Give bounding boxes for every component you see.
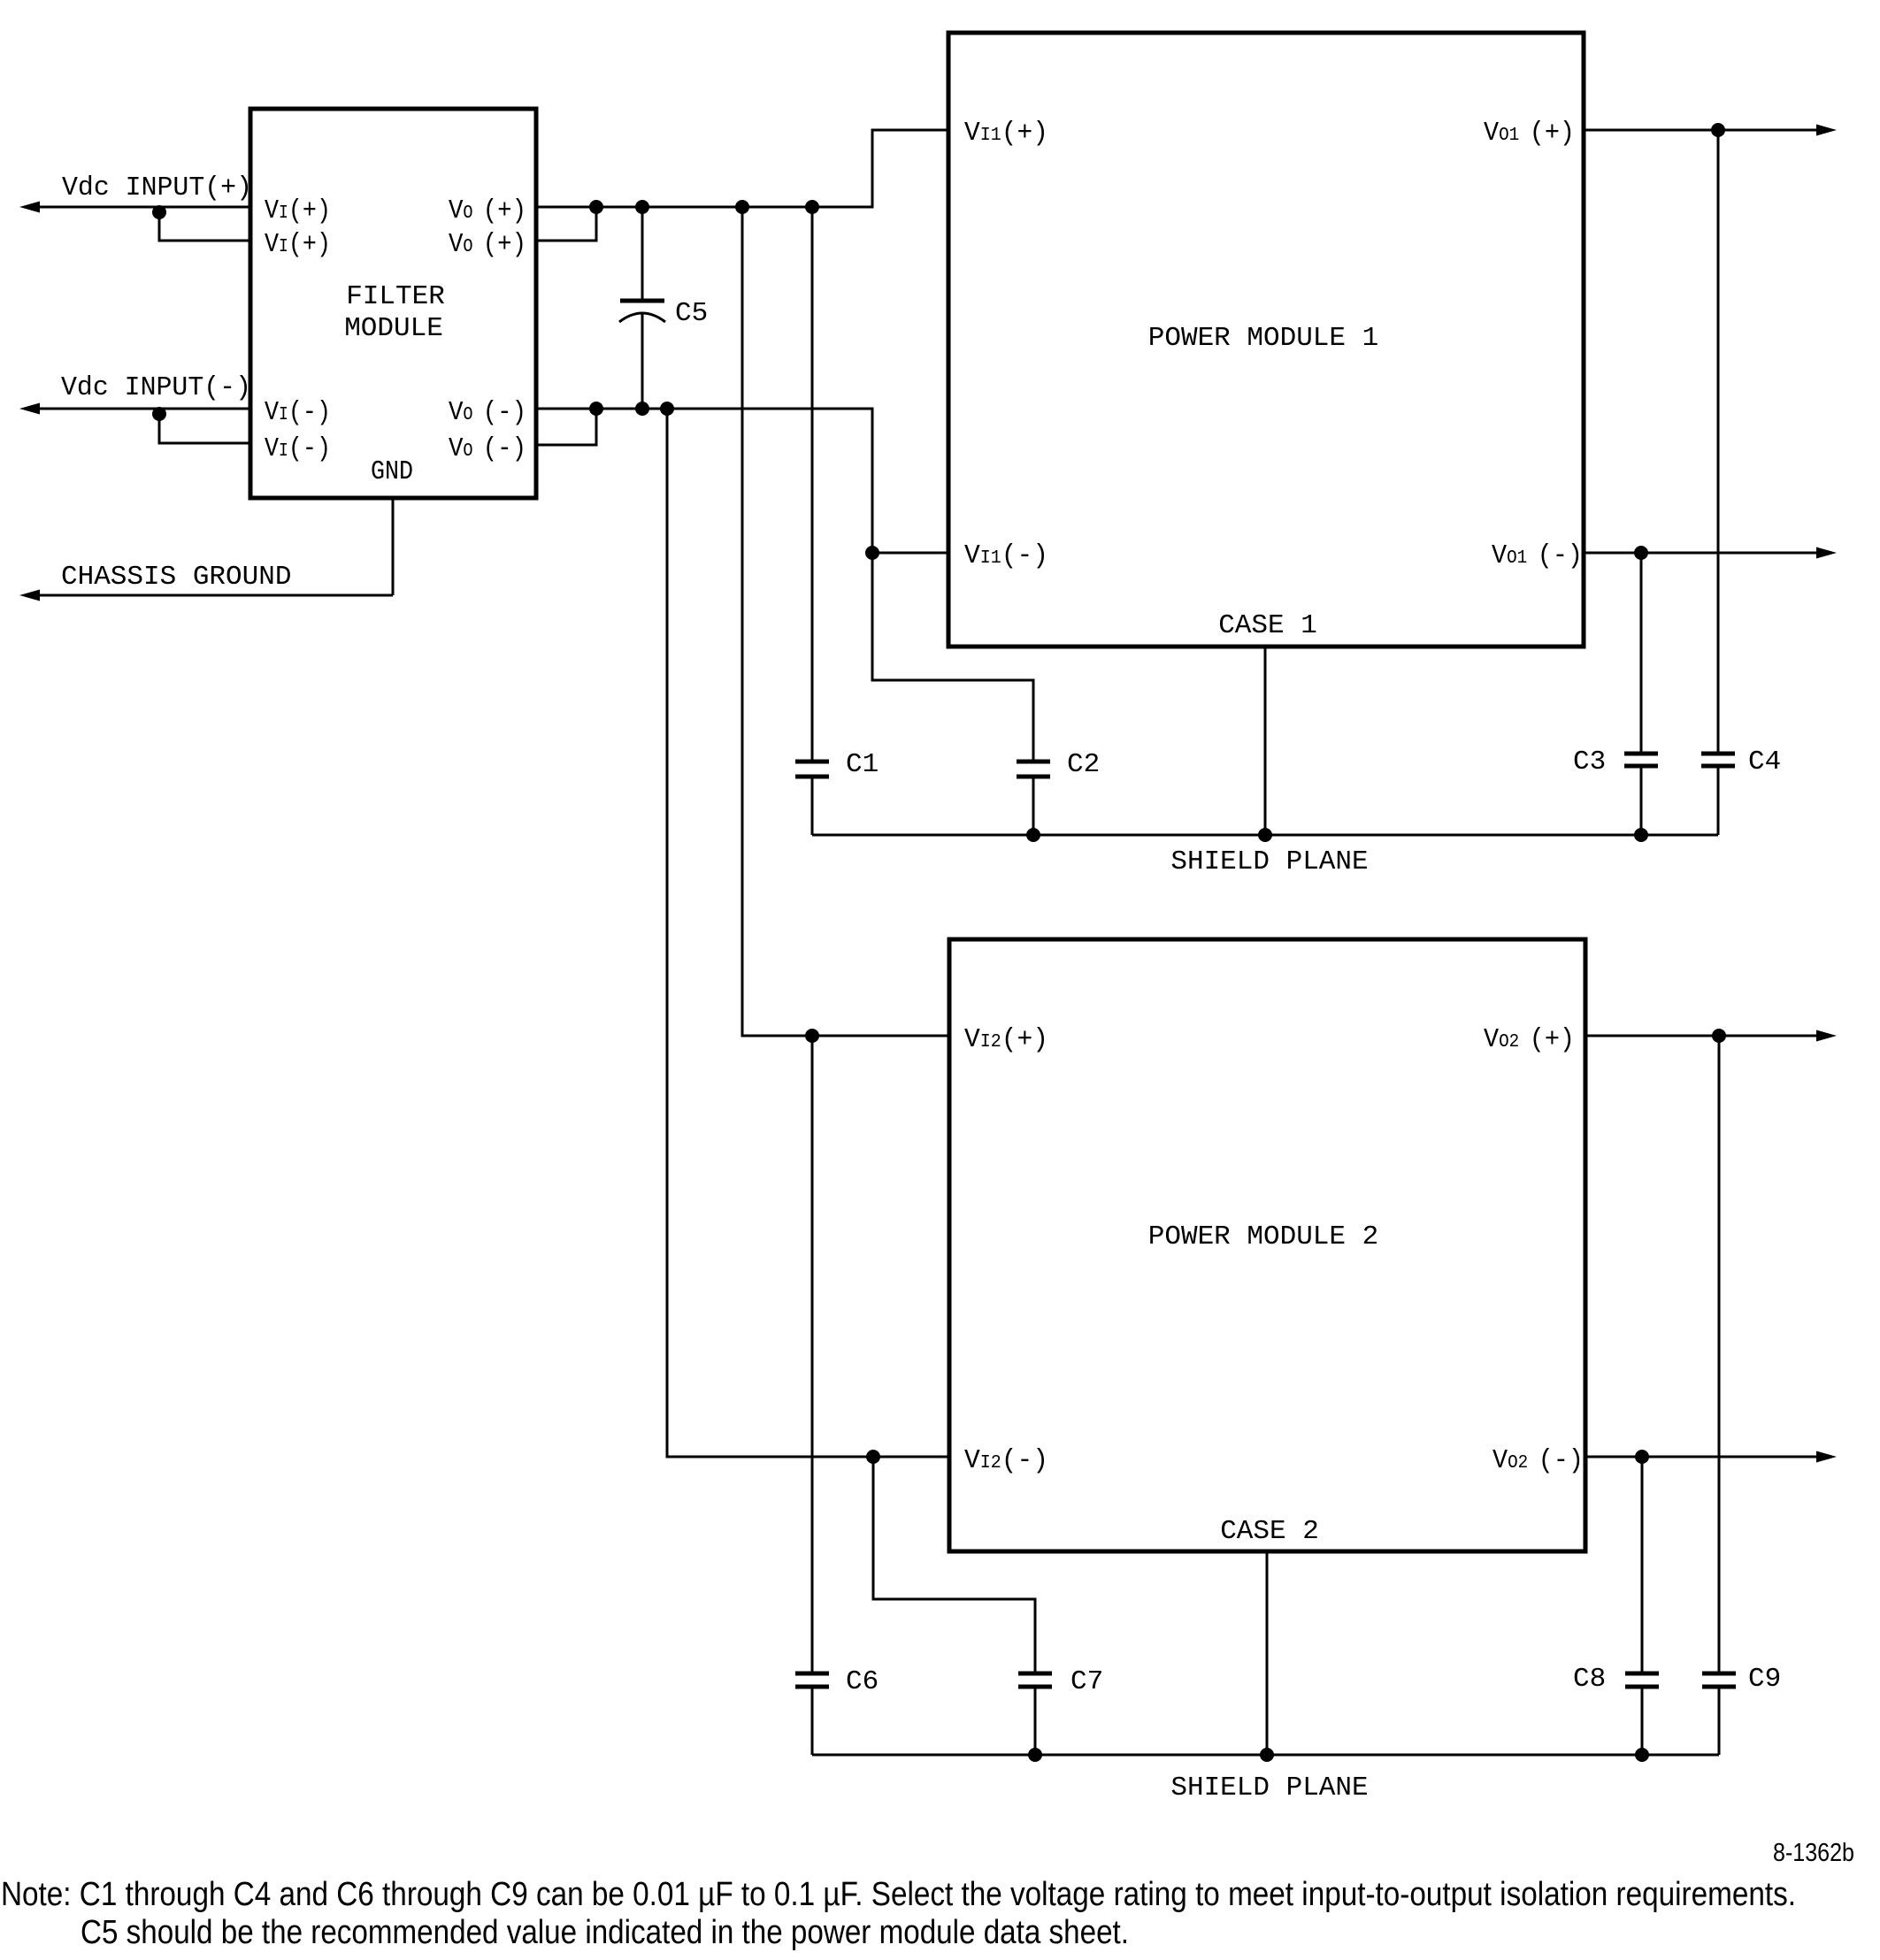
svg-text:CHASSIS GROUND: CHASSIS GROUND: [61, 562, 291, 593]
capacitor C9: [1702, 1036, 1781, 1755]
wire VO(-) bus to VI1(-): [536, 409, 948, 553]
junction dot VI1(-) C2 branch: [865, 546, 879, 560]
svg-text:VO (+): VO (+): [449, 229, 526, 260]
wire VO1(+) output: [1584, 129, 1819, 132]
svg-text:GND: GND: [371, 456, 413, 487]
wire shield plane 2: [812, 1754, 1719, 1757]
svg-text:C5: C5: [675, 298, 708, 329]
svg-text:C8: C8: [1573, 1664, 1606, 1695]
svg-text:VI2(+): VI2(+): [964, 1024, 1048, 1055]
junction dot C3 shield: [1634, 828, 1648, 842]
wire chassis ground: [27, 594, 393, 597]
wire VO2(-) output: [1585, 1456, 1819, 1459]
arrow Vdc INPUT(-) left: [19, 403, 40, 415]
svg-text:SHIELD PLANE: SHIELD PLANE: [1170, 1772, 1368, 1803]
svg-text:C9: C9: [1748, 1664, 1781, 1695]
svg-text:SHIELD PLANE: SHIELD PLANE: [1170, 846, 1368, 877]
junction dot VO1(-) C3 riser: [1634, 546, 1648, 560]
junction dot CASE2 shield: [1260, 1748, 1274, 1762]
wire CASE 2 stub: [1266, 1551, 1269, 1755]
wire riser to VI2(+): [742, 207, 948, 1036]
junction dot C5 top: [635, 200, 649, 214]
svg-text:VI2(-): VI2(-): [964, 1445, 1048, 1476]
wire GND stub: [392, 498, 395, 595]
svg-text:VO (+): VO (+): [449, 195, 526, 226]
capacitor C4: [1701, 130, 1781, 835]
label FILTER MODULE: [344, 281, 445, 344]
arrow chassis ground left: [19, 590, 40, 601]
junction dot riser to C1: [805, 200, 819, 214]
svg-text:VO1 (+): VO1 (+): [1484, 118, 1575, 149]
junction dot C7 shield: [1028, 1748, 1042, 1762]
svg-text:VI(+): VI(+): [265, 229, 331, 260]
junction dot riser to VI2(+): [735, 200, 749, 214]
svg-text:C6: C6: [846, 1666, 879, 1697]
capacitor C6: [795, 1036, 879, 1755]
svg-text:Note: C1 through C4 and C6 thr: Note: C1 through C4 and C6 through C9 ca…: [1, 1876, 1796, 1913]
wire second VO(-) pin branch: [536, 409, 596, 445]
svg-text:VO (-): VO (-): [449, 397, 526, 428]
wire riser to VI2(-): [667, 409, 948, 1457]
junction dot C8 shield: [1635, 1748, 1649, 1762]
junction dot VO1(+) C4 riser: [1711, 123, 1725, 137]
svg-text:VI(-): VI(-): [265, 433, 331, 464]
junction dot VO(-) pin2: [589, 402, 603, 416]
svg-text:C2: C2: [1067, 749, 1100, 780]
svg-text:C1: C1: [846, 749, 879, 780]
svg-text:VO1 (-): VO1 (-): [1492, 540, 1583, 571]
capacitor C3: [1573, 553, 1658, 835]
svg-text:VI1(-): VI1(-): [964, 540, 1048, 571]
arrow VO1(+) right: [1816, 125, 1837, 136]
svg-text:C3: C3: [1573, 746, 1606, 777]
svg-text:8-1362b: 8-1362b: [1773, 1839, 1854, 1867]
junction dot C5 bottom: [635, 402, 649, 416]
svg-text:C7: C7: [1070, 1666, 1103, 1697]
junction dot VO2(-) C8 riser: [1635, 1450, 1649, 1464]
capacitor C1: [795, 207, 879, 835]
filter module box: [250, 109, 536, 498]
junction dot C2 shield: [1026, 828, 1040, 842]
svg-text:POWER MODULE 1: POWER MODULE 1: [1148, 323, 1378, 354]
svg-text:VO2 (+): VO2 (+): [1484, 1024, 1575, 1055]
capacitor C5: [619, 207, 708, 409]
power module 1 box: [948, 33, 1584, 647]
svg-text:FILTER: FILTER: [346, 281, 445, 312]
power module 2 box: [949, 939, 1585, 1551]
svg-text:C4: C4: [1748, 746, 1781, 777]
svg-text:VO2 (-): VO2 (-): [1492, 1445, 1584, 1476]
arrow VO1(-) right: [1816, 547, 1837, 559]
svg-text:Vdc INPUT(-): Vdc INPUT(-): [61, 372, 251, 403]
wire branch to second VI(+) pin: [159, 212, 250, 241]
wire Vdc INPUT(+): [27, 206, 250, 209]
svg-text:VI1(+): VI1(+): [964, 118, 1048, 149]
svg-text:VO (-): VO (-): [449, 433, 526, 464]
junction dot VI2(-) C7 branch: [866, 1450, 880, 1464]
arrow VO2(-) right: [1816, 1451, 1837, 1463]
junction dot Vdc INPUT(+) branch: [152, 205, 166, 219]
capacitor C8: [1573, 1457, 1659, 1755]
svg-text:C5 should be the recommended v: C5 should be the recommended value indic…: [81, 1914, 1129, 1951]
wire CASE 1 stub: [1264, 647, 1267, 835]
junction dot riser to VI2(-): [660, 402, 674, 416]
capacitor C7: [873, 1457, 1103, 1755]
svg-text:Vdc INPUT(+): Vdc INPUT(+): [62, 172, 252, 203]
wire branch to second VI(-) pin: [159, 414, 250, 443]
svg-text:VI(+): VI(+): [265, 195, 331, 226]
wire second VO(+) pin branch: [536, 207, 596, 241]
wire VO(+) bus to VI1(+): [536, 130, 948, 207]
junction dot CASE1 shield: [1258, 828, 1272, 842]
junction dot VI2(+) C6 riser: [805, 1029, 819, 1043]
wire shield plane 1: [812, 834, 1718, 837]
arrow VO2(+) right: [1816, 1030, 1837, 1042]
junction dot Vdc INPUT(-) branch: [152, 407, 166, 421]
junction dot VO(+) pin2: [589, 200, 603, 214]
wire VO2(+) output: [1585, 1035, 1819, 1037]
svg-text:CASE 2: CASE 2: [1220, 1516, 1319, 1547]
svg-text:CASE 1: CASE 1: [1218, 610, 1317, 641]
junction dot VO2(+) C9 riser: [1712, 1029, 1726, 1043]
wire VO1(-) output: [1584, 552, 1819, 555]
capacitor C2: [872, 553, 1100, 835]
arrow Vdc INPUT(+) left: [19, 202, 40, 213]
svg-text:POWER MODULE 2: POWER MODULE 2: [1148, 1221, 1378, 1252]
wire Vdc INPUT(-): [27, 408, 250, 410]
svg-text:MODULE: MODULE: [344, 313, 443, 344]
svg-text:VI(-): VI(-): [265, 397, 331, 428]
